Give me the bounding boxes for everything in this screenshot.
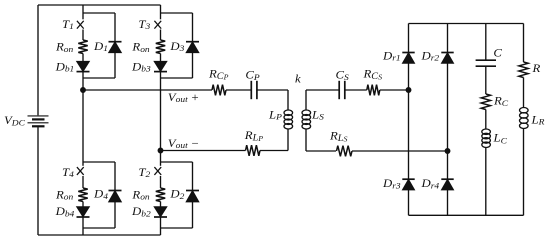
svg-text:T4: T4: [62, 166, 74, 179]
svg-text:LR: LR: [530, 113, 545, 126]
svg-text:LC: LC: [492, 131, 508, 145]
svg-text:CS: CS: [336, 68, 350, 82]
svg-text:T1: T1: [62, 18, 74, 31]
svg-text:Db2: Db2: [131, 205, 151, 218]
svg-text:D1: D1: [93, 39, 108, 52]
svg-text:CP: CP: [245, 68, 260, 82]
svg-text:Vout−: Vout−: [168, 136, 199, 149]
svg-text:LS: LS: [311, 108, 324, 121]
svg-text:RLP: RLP: [244, 129, 264, 144]
svg-text:Ron: Ron: [131, 188, 150, 201]
svg-text:Db3: Db3: [131, 60, 151, 73]
svg-text:D4: D4: [93, 187, 109, 200]
svg-text:RC: RC: [493, 94, 509, 108]
svg-text:R: R: [531, 61, 541, 74]
svg-text:Ron: Ron: [55, 188, 74, 201]
svg-text:Dr4: Dr4: [420, 177, 439, 190]
svg-text:T3: T3: [138, 18, 150, 31]
svg-text:RLS: RLS: [329, 129, 348, 144]
svg-text:VDC: VDC: [4, 114, 26, 127]
svg-text:Vout+: Vout+: [168, 90, 199, 103]
svg-text:k: k: [295, 72, 301, 85]
svg-text:T2: T2: [138, 166, 150, 179]
svg-text:RCS: RCS: [362, 67, 382, 82]
svg-text:D2: D2: [169, 187, 185, 200]
svg-text:Ron: Ron: [131, 40, 150, 53]
svg-text:Db1: Db1: [55, 60, 75, 73]
svg-text:Dr2: Dr2: [420, 49, 439, 62]
svg-text:D3: D3: [169, 39, 185, 52]
svg-text:Dr3: Dr3: [382, 177, 401, 190]
svg-text:Ron: Ron: [55, 40, 74, 53]
svg-text:LP: LP: [268, 108, 283, 121]
svg-text:RCP: RCP: [208, 67, 229, 82]
svg-text:Db4: Db4: [55, 205, 75, 218]
svg-text:C: C: [493, 46, 503, 59]
svg-text:Dr1: Dr1: [382, 49, 401, 62]
